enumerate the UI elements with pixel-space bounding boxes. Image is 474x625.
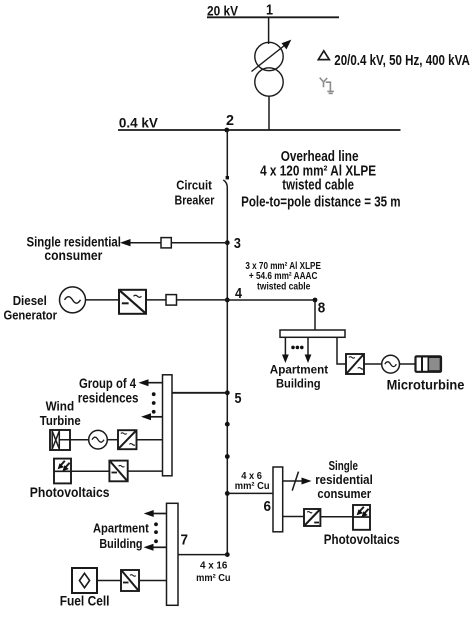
node 5 xyxy=(225,390,230,395)
wire node3 branch xyxy=(127,242,227,244)
wire bus1 to transformer xyxy=(268,17,270,44)
wire busbar8 to converter xyxy=(337,337,346,364)
meter box node3 xyxy=(161,238,171,248)
delta winding symbol xyxy=(318,51,329,60)
load arrow 5a xyxy=(146,382,163,384)
converter PV1 (DC/AC) xyxy=(109,461,127,482)
transformer tap arrow xyxy=(252,44,288,72)
wire meter to node4 xyxy=(177,299,228,301)
node 7 junction xyxy=(225,552,230,557)
wire feeder main xyxy=(226,189,228,555)
svg-text:Circuit: Circuit xyxy=(176,179,212,193)
circuit breaker CB xyxy=(226,176,229,179)
wire generator to converter xyxy=(86,299,120,301)
node 4 xyxy=(225,298,230,303)
svg-text:20 kV: 20 kV xyxy=(207,3,239,19)
node 3 xyxy=(225,240,230,245)
wire converter to AC source xyxy=(364,363,382,365)
fuel cell FC xyxy=(72,568,97,593)
svg-text:0.4 kV: 0.4 kV xyxy=(119,115,159,131)
AC machine microturbine xyxy=(382,355,400,373)
wire node7 to busbar7 xyxy=(178,554,227,556)
converter microturbine xyxy=(346,354,364,374)
wind turbine WT xyxy=(50,430,70,450)
bus 0.4 kV xyxy=(118,129,401,131)
wire feeder upper xyxy=(226,130,228,178)
wire converter PV2 to PV2 xyxy=(320,516,353,518)
converter diesel (DC/AC) xyxy=(119,290,146,314)
svg-text:3: 3 xyxy=(234,236,241,252)
wire transformer to bus2 xyxy=(268,96,270,130)
wire PV1 to converter xyxy=(71,470,109,472)
node 6 xyxy=(225,491,230,496)
junction dot feeder b xyxy=(225,454,230,459)
svg-text:Pole-to=pole distance = 35 m: Pole-to=pole distance = 35 m xyxy=(241,195,401,211)
wire busbar6 to converter PV2 xyxy=(283,516,304,518)
svg-text:Apartment: Apartment xyxy=(270,362,328,376)
svg-text:20/0.4 kV, 50 Hz, 400 kVA: 20/0.4 kV, 50 Hz, 400 kVA xyxy=(334,52,470,69)
transformer T1 xyxy=(255,42,283,70)
svg-text:Microturbine: Microturbine xyxy=(387,377,465,393)
diesel generator G1 xyxy=(60,287,86,313)
svg-text:consumer: consumer xyxy=(44,248,103,263)
wire consumer branch 6 xyxy=(283,480,306,482)
svg-text:Photovoltaics: Photovoltaics xyxy=(30,484,110,500)
svg-text:8: 8 xyxy=(318,300,326,316)
arrow to consumer 3 xyxy=(120,239,131,246)
meter box node4 xyxy=(166,295,177,306)
wire AC to converter wind xyxy=(107,439,118,441)
wire WT to AC xyxy=(59,439,89,441)
wire FC to converter xyxy=(97,580,121,582)
load arrow 8b xyxy=(307,337,309,357)
svg-text:Turbine: Turbine xyxy=(40,414,81,428)
load arrow 7a xyxy=(151,513,167,515)
svg-text:5: 5 xyxy=(235,391,242,407)
svg-text:Breaker: Breaker xyxy=(175,194,215,208)
wire node6 to busbar6 xyxy=(227,492,273,494)
wire node4 to node8 xyxy=(227,299,315,301)
svg-text:Generator: Generator xyxy=(4,308,58,322)
wire converter to meter xyxy=(146,299,166,301)
svg-text:twisted cable: twisted cable xyxy=(282,177,354,193)
svg-text:Wind: Wind xyxy=(46,400,75,414)
svg-text:Building: Building xyxy=(99,537,142,551)
svg-text:Photovoltaics: Photovoltaics xyxy=(324,531,400,547)
busbar node 5 xyxy=(163,375,173,476)
wire AC source to microturbine xyxy=(400,363,416,365)
junction dot feeder a xyxy=(225,422,230,427)
svg-text:Fuel Cell: Fuel Cell xyxy=(60,594,110,609)
wye ground symbol (gray) xyxy=(320,78,334,94)
AC machine wind xyxy=(89,430,108,449)
svg-text:Building: Building xyxy=(276,377,321,391)
dots busbar5 xyxy=(152,392,156,396)
wire down to busbar 8 xyxy=(314,300,316,330)
converter wind (AC/AC) xyxy=(118,430,137,449)
busbar node 8 xyxy=(280,330,345,337)
wire node5 to busbar5 xyxy=(172,392,227,394)
svg-text:Group of 4: Group of 4 xyxy=(79,376,136,391)
svg-text:4 x 16: 4 x 16 xyxy=(200,561,228,572)
svg-text:twisted cable: twisted cable xyxy=(257,281,311,292)
junction node8 feed xyxy=(313,298,318,303)
svg-text:6: 6 xyxy=(264,499,272,515)
load arrow 5b xyxy=(148,416,163,418)
busbar node 7 xyxy=(167,503,179,605)
svg-text:consumer: consumer xyxy=(317,486,371,501)
microturbine MT xyxy=(416,356,442,371)
wire converter FC to busbar7 xyxy=(139,580,167,582)
busbar node 6 xyxy=(273,467,283,532)
photovoltaics PV1 xyxy=(54,459,71,484)
wire converter PV1 to busbar5 xyxy=(128,470,163,472)
photovoltaics PV2 xyxy=(353,505,370,530)
wire converter to busbar5 xyxy=(137,439,163,441)
svg-text:mm² Cu: mm² Cu xyxy=(235,481,270,492)
svg-text:2: 2 xyxy=(226,113,234,129)
converter PV2 xyxy=(304,509,320,526)
svg-text:residences: residences xyxy=(78,390,139,405)
breaker slash 6 xyxy=(292,472,298,491)
converter FC (DC/AC) xyxy=(121,570,139,591)
svg-text:1: 1 xyxy=(266,3,273,19)
svg-text:Overhead line: Overhead line xyxy=(281,149,359,165)
load arrow 7b xyxy=(151,546,167,548)
bus 20 kV xyxy=(207,16,339,18)
load arrow 8a xyxy=(284,337,286,357)
dots busbar7 xyxy=(154,522,158,526)
svg-text:mm² Cu: mm² Cu xyxy=(196,573,231,584)
svg-text:Diesel: Diesel xyxy=(13,294,47,308)
arrow to consumer 6 xyxy=(302,478,312,485)
svg-text:7: 7 xyxy=(181,532,189,548)
svg-text:residential: residential xyxy=(315,472,373,487)
dots between arrows 8 xyxy=(291,346,295,350)
svg-text:Apartment: Apartment xyxy=(93,522,149,536)
